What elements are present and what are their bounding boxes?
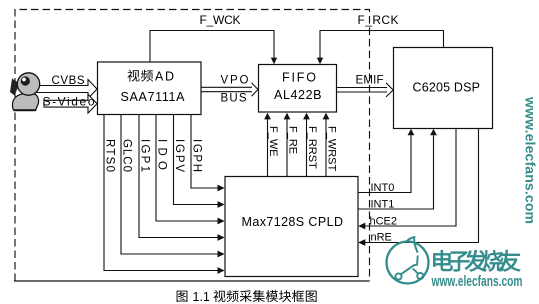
- svg-text:RTS0: RTS0: [103, 139, 115, 172]
- svg-text:INT0: INT0: [371, 182, 395, 194]
- svg-text:AD: AD: [155, 70, 174, 84]
- svg-text:F_RCK: F_RCK: [358, 13, 399, 27]
- svg-text:CVBS: CVBS: [52, 75, 85, 87]
- svg-text:IGPH: IGPH: [190, 139, 202, 172]
- svg-text:GLC0: GLC0: [120, 139, 132, 172]
- svg-text:F_WE: F_WE: [267, 126, 279, 157]
- svg-text:Max7128S CPLD: Max7128S CPLD: [242, 215, 344, 229]
- svg-text:F_WRST: F_WRST: [325, 126, 337, 172]
- svg-text:1.1: 1.1: [193, 290, 210, 304]
- svg-text:IGPV: IGPV: [173, 139, 185, 172]
- svg-text:IDO: IDO: [155, 139, 167, 170]
- svg-text:F_WCK: F_WCK: [200, 13, 241, 27]
- svg-text:VPO: VPO: [221, 75, 249, 87]
- svg-text:BUS: BUS: [221, 93, 247, 105]
- svg-text:EMIF: EMIF: [356, 75, 384, 87]
- svg-text:F_RRST: F_RRST: [306, 126, 318, 169]
- svg-text:www.elecfans.com: www.elecfans.com: [523, 96, 539, 224]
- svg-text:www.elecfans.com: www.elecfans.com: [431, 273, 523, 290]
- svg-text:C6205 DSP: C6205 DSP: [413, 81, 481, 95]
- svg-text:nRE: nRE: [371, 232, 392, 244]
- svg-text:AL422B: AL422B: [274, 88, 322, 102]
- svg-text:FIFO: FIFO: [282, 71, 316, 85]
- svg-text:INT1: INT1: [371, 199, 395, 211]
- svg-text:F_RE: F_RE: [286, 126, 298, 154]
- svg-text:IGP1: IGP1: [138, 139, 150, 172]
- svg-text:S-Video: S-Video: [43, 95, 95, 109]
- svg-text:hCE2: hCE2: [370, 216, 398, 228]
- svg-text:SAA7111A: SAA7111A: [121, 90, 186, 104]
